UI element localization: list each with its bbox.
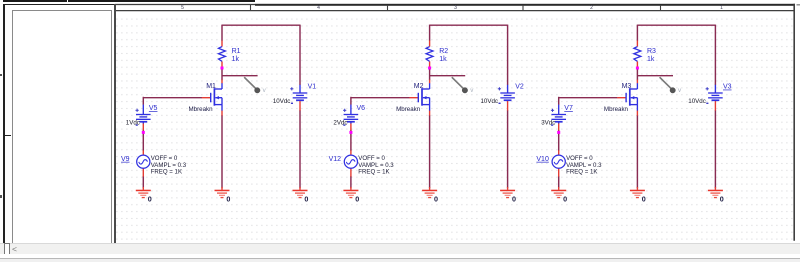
svg-text:0: 0 <box>355 195 359 204</box>
svg-text:0: 0 <box>148 195 152 204</box>
svg-text:0: 0 <box>563 195 567 204</box>
svg-text:0: 0 <box>434 195 438 204</box>
svg-text:FREQ = 1K: FREQ = 1K <box>151 169 182 176</box>
svg-text:M3: M3 <box>622 83 632 90</box>
svg-text:V12: V12 <box>329 156 342 163</box>
svg-text:1k: 1k <box>232 56 240 63</box>
svg-text:v: v <box>263 87 267 94</box>
svg-text:0: 0 <box>304 195 308 204</box>
svg-text:R2: R2 <box>439 48 448 55</box>
svg-text:V9: V9 <box>121 156 130 163</box>
svg-text:5: 5 <box>181 5 184 11</box>
svg-text:V3: V3 <box>723 84 732 91</box>
svg-text:M1: M1 <box>206 83 216 90</box>
svg-text:10Vdc: 10Vdc <box>688 98 706 105</box>
svg-text:V7: V7 <box>564 105 573 112</box>
svg-text:2: 2 <box>590 5 593 11</box>
svg-text:V5: V5 <box>149 105 158 112</box>
svg-text:10Vdc: 10Vdc <box>273 98 291 105</box>
svg-text:1k: 1k <box>647 56 655 63</box>
svg-text:R3: R3 <box>647 48 656 55</box>
svg-text:4: 4 <box>317 5 320 11</box>
svg-text:0: 0 <box>720 195 724 204</box>
svg-text:M2: M2 <box>414 83 424 90</box>
svg-text:V1: V1 <box>308 84 317 91</box>
svg-text:0: 0 <box>226 195 230 204</box>
svg-text:v: v <box>470 87 474 94</box>
svg-text:1k: 1k <box>439 56 447 63</box>
svg-text:v: v <box>678 87 682 94</box>
svg-text:V6: V6 <box>357 105 366 112</box>
svg-text:1: 1 <box>720 5 723 11</box>
svg-text:V2: V2 <box>515 84 524 91</box>
svg-text:FREQ = 1K: FREQ = 1K <box>566 169 597 176</box>
svg-text:0: 0 <box>512 195 516 204</box>
svg-text:0: 0 <box>642 195 646 204</box>
svg-text:V10: V10 <box>536 156 549 163</box>
svg-text:Mbreakn: Mbreakn <box>396 106 421 113</box>
svg-text:FREQ = 1K: FREQ = 1K <box>358 169 389 176</box>
svg-text:10Vdc: 10Vdc <box>480 98 498 105</box>
svg-text:Mbreakn: Mbreakn <box>189 106 214 113</box>
svg-text:3: 3 <box>454 5 457 11</box>
svg-text:Mbreakn: Mbreakn <box>604 106 629 113</box>
svg-text:R1: R1 <box>232 48 241 55</box>
